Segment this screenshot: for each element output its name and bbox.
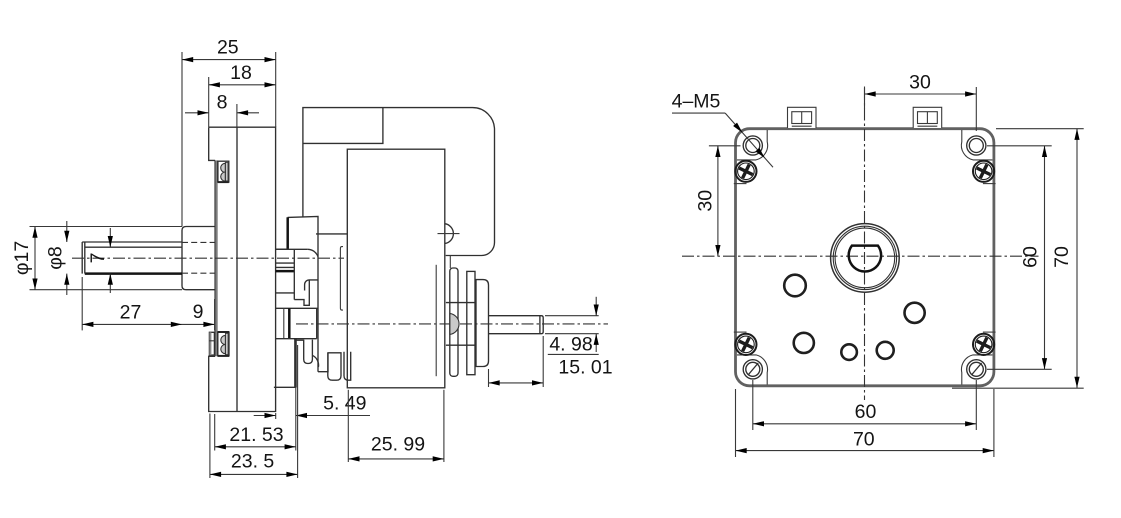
svg-text:25. 99: 25. 99 bbox=[371, 434, 425, 456]
svg-text:8: 8 bbox=[217, 92, 228, 114]
svg-text:23. 5: 23. 5 bbox=[231, 450, 275, 472]
svg-text:9: 9 bbox=[193, 301, 204, 323]
svg-text:21. 53: 21. 53 bbox=[229, 424, 283, 446]
svg-text:25: 25 bbox=[217, 37, 239, 59]
svg-text:70: 70 bbox=[1051, 246, 1073, 268]
svg-text:70: 70 bbox=[853, 428, 875, 450]
svg-text:60: 60 bbox=[855, 401, 877, 423]
svg-text:4. 98: 4. 98 bbox=[549, 334, 592, 356]
svg-text:60: 60 bbox=[1020, 246, 1042, 268]
svg-text:27: 27 bbox=[120, 302, 142, 324]
svg-text:30: 30 bbox=[694, 190, 716, 212]
svg-text:5. 49: 5. 49 bbox=[323, 393, 366, 415]
svg-text:15. 01: 15. 01 bbox=[558, 357, 612, 379]
svg-text:φ17: φ17 bbox=[11, 241, 33, 275]
svg-text:4–M5: 4–M5 bbox=[672, 91, 721, 113]
svg-text:30: 30 bbox=[909, 72, 931, 94]
svg-text:φ8: φ8 bbox=[45, 246, 67, 270]
svg-text:7: 7 bbox=[87, 253, 109, 264]
svg-text:18: 18 bbox=[230, 62, 252, 84]
